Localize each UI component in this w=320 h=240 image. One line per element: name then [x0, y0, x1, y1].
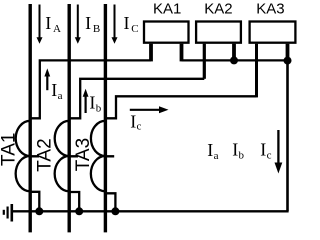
wire common return (KA1 right to KA3 right): [182, 59, 288, 61]
CT TA2 secondary winding arcs: [55, 121, 78, 192]
arrow Ia (secondary current, up): [44, 68, 50, 90]
svg-text:TA1: TA1: [0, 133, 19, 166]
junction dot TA2-neutral: [75, 207, 83, 215]
relay KA3 coil box: [250, 22, 296, 43]
arrow Ic (secondary current, right): [130, 106, 169, 113]
relay KA2 coil box: [196, 22, 241, 43]
wire Ia (TA1 secondary top tap to KA1 left): [30, 60, 151, 118]
junction dot TA3-neutral: [111, 207, 119, 215]
svg-text:KA3: KA3: [256, 1, 284, 18]
KA3 pin 2 (right terminal): [286, 44, 290, 62]
junction dot KA2-common: [230, 56, 238, 64]
wire Ic (TA3 secondary top tap to KA3 left): [105, 96, 256, 118]
arrow IB (primary current direction, phase B): [75, 5, 81, 44]
junction dot TA1-neutral: [35, 207, 43, 215]
bus C (phase C conductor): [104, 4, 107, 232]
arrow IC (primary current direction, phase C): [112, 5, 118, 44]
svg-text:TA2: TA2: [34, 138, 55, 171]
arrow Ib (secondary current, up): [83, 89, 89, 113]
ground symbol: [4, 204, 12, 222]
wire right return (down the right side): [286, 60, 289, 211]
wire TA3 bottom tap: [105, 193, 115, 211]
junction dot KA3-common: [284, 57, 292, 65]
CT TA3 secondary winding arcs: [91, 121, 114, 192]
KA2 pin 2 (right terminal): [232, 44, 236, 62]
arrow IA (primary current direction, phase A): [37, 5, 43, 44]
svg-text:TA3: TA3: [73, 138, 94, 171]
KA2 pin 1 (left terminal): [203, 44, 206, 79]
wire TA1 bottom tap: [30, 192, 39, 212]
arrow sum current (down, right side): [275, 130, 283, 174]
CT TA1 secondary winding arcs: [16, 121, 39, 192]
KA1 pin 2 (right terminal): [180, 44, 184, 62]
bus B (phase B conductor): [67, 4, 70, 232]
bus A (phase A conductor): [29, 4, 32, 232]
KA1 pin 1 (left terminal): [149, 44, 153, 62]
wire Ib (TA2 secondary top tap to KA2 left): [69, 79, 204, 119]
KA3 pin 1 (left terminal): [255, 44, 258, 98]
wire TA2 bottom tap: [69, 192, 79, 211]
svg-text:KA2: KA2: [204, 1, 232, 18]
svg-text:KA1: KA1: [153, 1, 181, 18]
relay KA1 coil box: [144, 22, 189, 43]
wire bottom neutral bus: [11, 210, 288, 212]
